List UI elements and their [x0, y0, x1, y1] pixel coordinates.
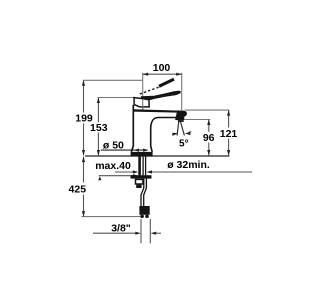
- hose end connector: [139, 206, 149, 215]
- spout top edge bar: [133, 109, 184, 113]
- dimension 100: [143, 73, 182, 76]
- dimension 425: [82, 157, 85, 217]
- spout nose fill: [176, 110, 187, 117]
- extension line 100 right: [181, 73, 183, 110]
- mounting nut body: [136, 179, 143, 184]
- extension line 100 left: [142, 73, 144, 110]
- lever raised position (dashed): [140, 87, 160, 94]
- svg-text:100: 100: [153, 62, 171, 74]
- mounting nut flange: [131, 175, 152, 178]
- svg-text:96: 96: [203, 132, 215, 144]
- extension line top of raised handle (199 ref): [83, 79, 143, 81]
- flexible hose: [141, 179, 146, 206]
- counter top line: [85, 155, 229, 157]
- svg-text:ø 50: ø 50: [103, 139, 124, 151]
- faucet body left edge: [131, 105, 133, 152]
- svg-text:153: 153: [90, 122, 108, 134]
- dimension 199: [82, 80, 85, 155]
- svg-text:max.40: max.40: [95, 160, 131, 172]
- extension line top of body (153 ref): [98, 97, 134, 99]
- extension line 121 (spout top right): [185, 109, 230, 111]
- threaded shank: [140, 156, 146, 175]
- svg-text:ø 32min.: ø 32min.: [167, 159, 210, 171]
- svg-text:5°: 5°: [179, 139, 189, 150]
- faucet base: [131, 152, 153, 156]
- dimension 96: [207, 120, 210, 156]
- outlet aerator: [175, 117, 184, 121]
- svg-text:3/8": 3/8": [111, 222, 131, 234]
- lever raised tip (solid): [159, 79, 174, 86]
- spray cone 5 deg: [177, 121, 184, 136]
- extension line 100 left (over cap): [142, 99, 144, 110]
- svg-text:425: 425: [69, 184, 87, 196]
- 5 deg angle arrows: [172, 132, 191, 136]
- extension line 96 (outlet level): [185, 119, 211, 121]
- cartridge cap outline: [134, 98, 149, 107]
- dimension 121: [227, 110, 230, 155]
- spout underside and body right edge: [151, 118, 177, 152]
- dimension 153: [97, 98, 100, 156]
- svg-text:121: 121: [220, 128, 238, 140]
- extension line hose end (425 ref): [82, 216, 143, 218]
- lever handle (rest position): [141, 91, 181, 101]
